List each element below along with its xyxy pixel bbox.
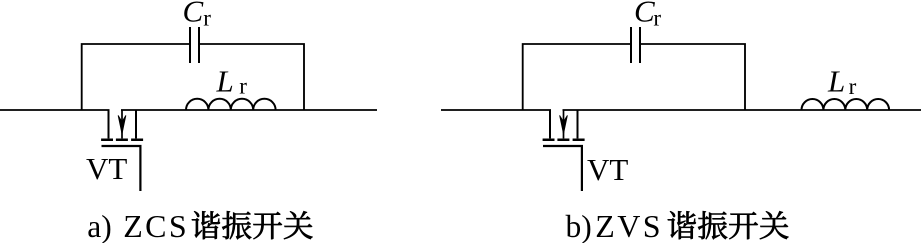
wire: Cr parallel branch (left riser + top) circuit a bbox=[82, 44, 190, 110]
wire: main line circuit a, right segment (from VT1 arrow lead) bbox=[121, 109, 377, 111]
transistor VT2: gate line and gate lead bbox=[543, 146, 582, 191]
svg-text:ZVS: ZVS bbox=[595, 208, 663, 243]
svg-text:VT: VT bbox=[587, 152, 628, 187]
transistor VT2: source stub bbox=[577, 110, 579, 138]
svg-text:L: L bbox=[827, 63, 845, 98]
inductor L1 (Lr of ZCS cell, in series inside loop) bbox=[186, 99, 276, 110]
svg-text:ZCS: ZCS bbox=[123, 208, 189, 243]
inductor L2 (Lr of ZVS cell, in series on main line) bbox=[802, 99, 890, 110]
transistor VT2: center lead (arrow shaft) bbox=[563, 110, 565, 138]
transistor VT2: arrowhead pointing down (N-channel arrow) bbox=[560, 115, 568, 134]
wire: Cr branch top right + right riser circuit a bbox=[199, 44, 304, 110]
transistor VT1: center lead (arrow shaft) bbox=[121, 110, 123, 138]
transistor VT1: drain stub bbox=[108, 110, 110, 138]
transistor VT1: gate line and gate lead bbox=[102, 146, 141, 191]
svg-text:r: r bbox=[653, 5, 661, 30]
capacitor C1 plates (Cr of ZCS cell) bbox=[190, 27, 199, 63]
transistor VT1: source stub bbox=[135, 110, 137, 138]
wire: Cr parallel branch (left riser + top) circuit b bbox=[523, 44, 631, 110]
transistor VT2: channel bars bbox=[543, 138, 585, 141]
svg-text:r: r bbox=[203, 5, 211, 30]
svg-text:C: C bbox=[183, 0, 204, 29]
svg-text:a): a) bbox=[87, 209, 111, 243]
transistor VT1: arrowhead pointing down (N-channel arrow) bbox=[118, 115, 126, 134]
capacitor C2 plates (Cr of ZVS cell) bbox=[631, 27, 640, 63]
svg-text:r: r bbox=[849, 74, 857, 99]
transistor VT1: channel bars bbox=[101, 138, 143, 141]
wire: main line circuit b, left segment (ends at VT2 drain) bbox=[441, 109, 551, 111]
svg-text:VT: VT bbox=[86, 151, 127, 186]
wire: main line circuit b, right segment (from VT2 arrow lead) bbox=[563, 109, 921, 111]
wire: main line circuit a, left segment (ends at VT1 drain) bbox=[0, 109, 110, 111]
caption 谐振开关 b (CJK glyph paths) bbox=[668, 211, 696, 239]
svg-text:C: C bbox=[634, 0, 655, 29]
wire: Cr branch top right + right riser circuit b bbox=[640, 44, 745, 110]
svg-text:r: r bbox=[239, 73, 247, 98]
svg-text:b): b) bbox=[566, 209, 592, 243]
caption 谐振开关 (CJK glyph paths) bbox=[192, 211, 220, 239]
svg-text:L: L bbox=[216, 64, 234, 99]
transistor VT2: drain stub bbox=[549, 110, 551, 138]
